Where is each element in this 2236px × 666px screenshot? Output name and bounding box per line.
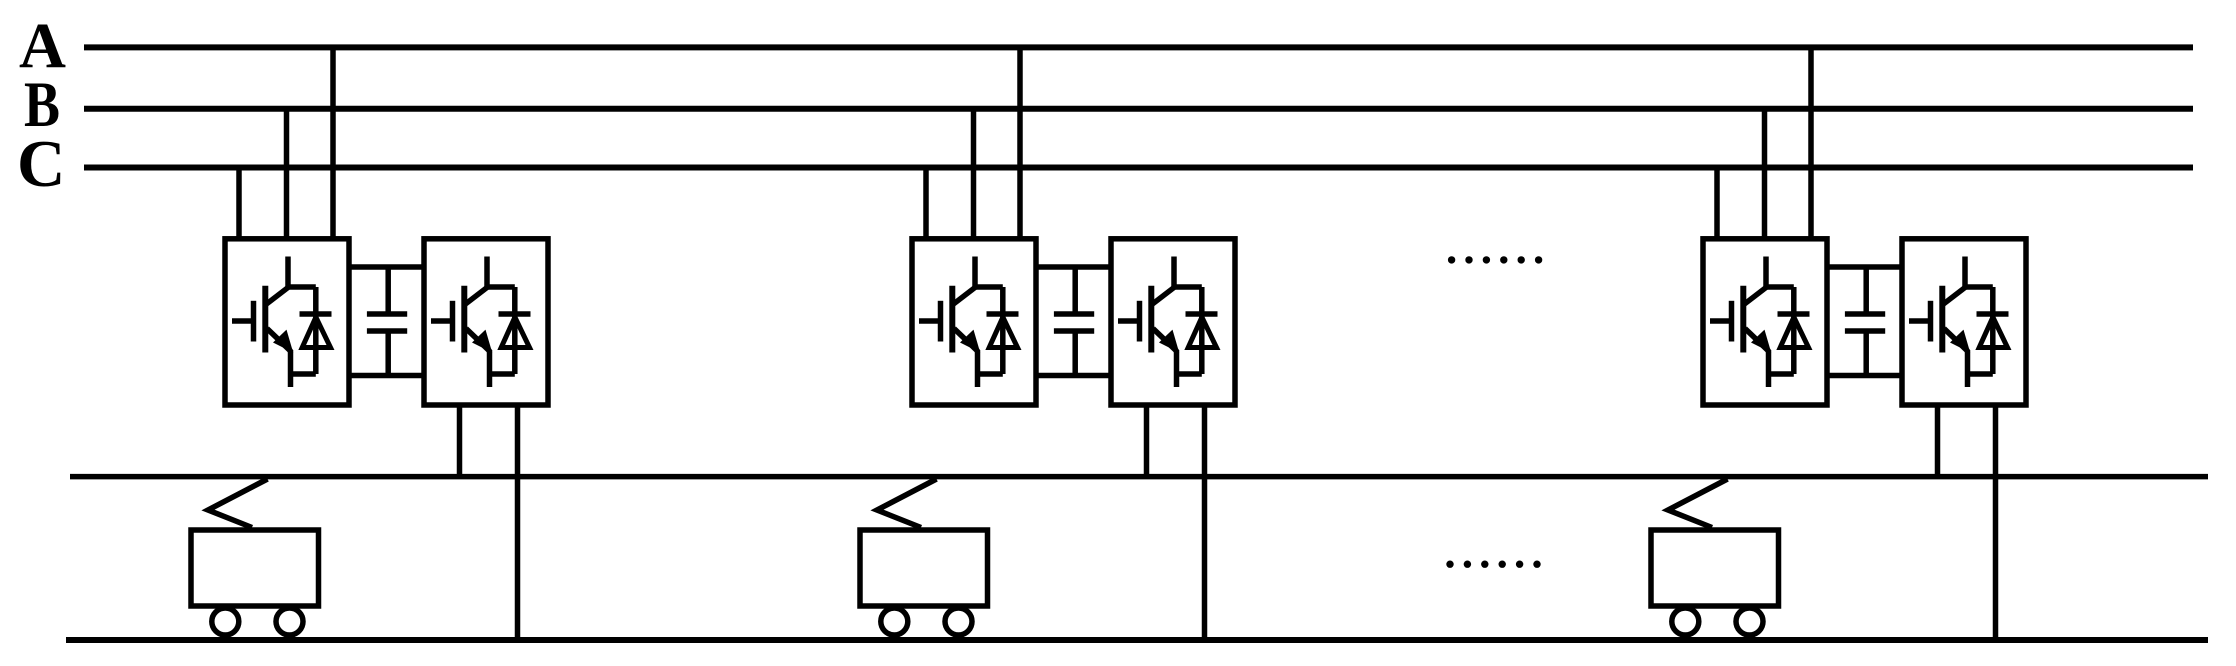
svg-text:C: C	[17, 127, 65, 201]
